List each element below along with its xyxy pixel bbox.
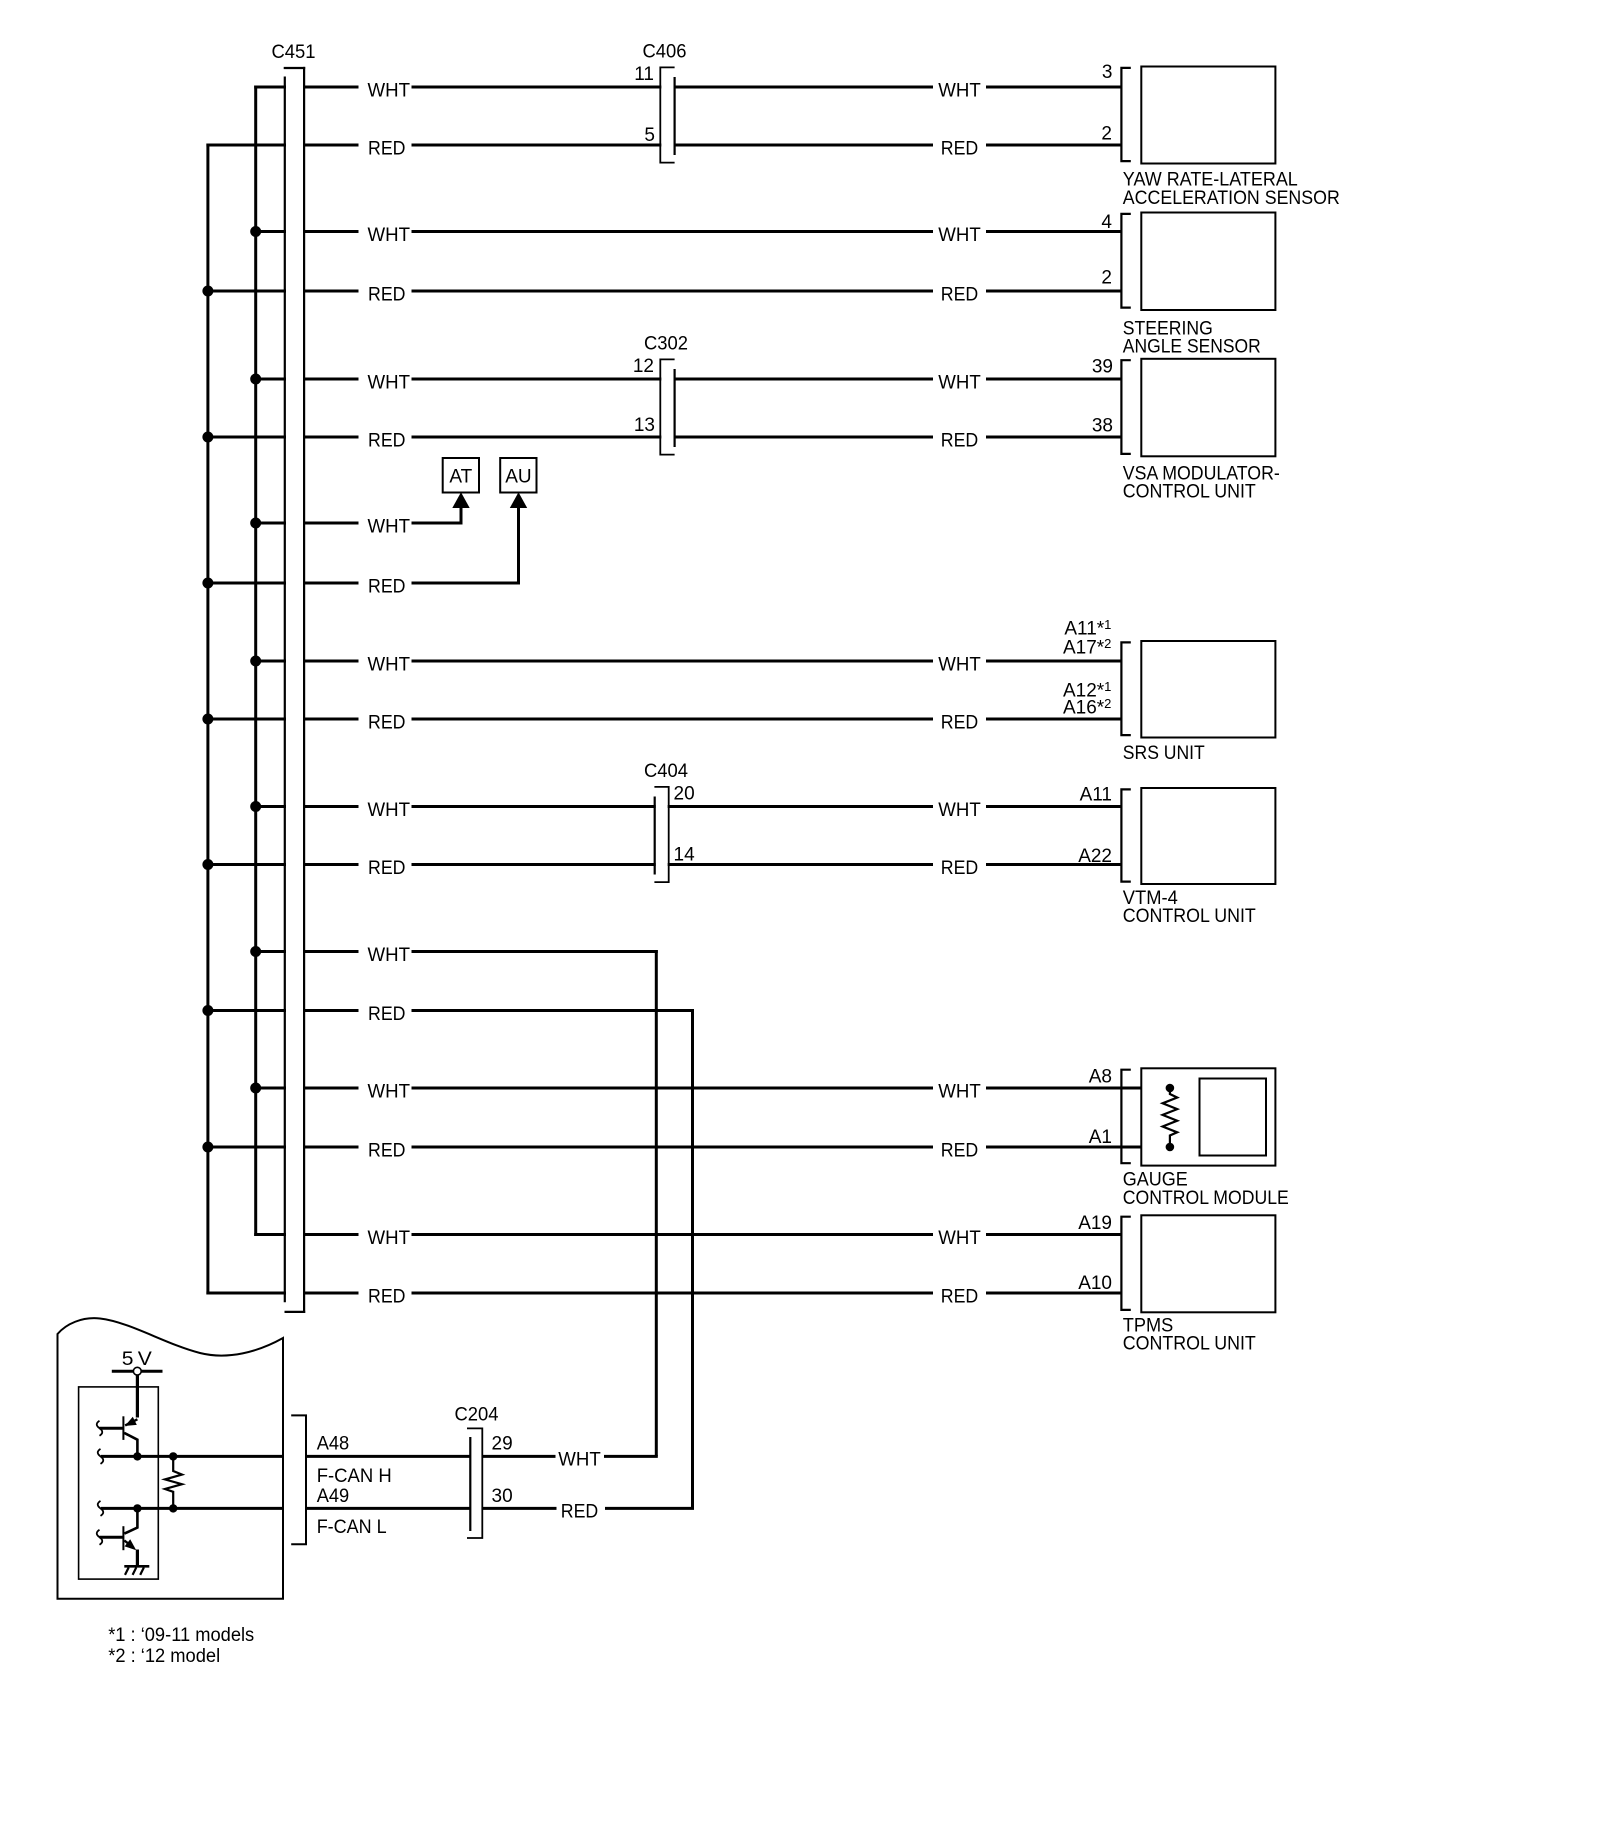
wire WHT row 3 — [254, 378, 358, 381]
svg-text:RED: RED — [941, 138, 979, 159]
wire RED row 8 segments — [412, 1146, 934, 1149]
svg-text:11: 11 — [634, 64, 654, 85]
svg-text:WHT: WHT — [938, 80, 981, 101]
svg-text:RED: RED — [368, 138, 406, 159]
svg-text:CONTROL UNIT: CONTROL UNIT — [1123, 482, 1256, 503]
ground (chassis) — [124, 1566, 149, 1575]
svg-text:ANGLE SENSOR: ANGLE SENSOR — [1123, 336, 1261, 357]
wire RED row 2 — [206, 290, 358, 293]
connector C404 — [644, 761, 695, 886]
wire WHT row 4 — [254, 522, 358, 525]
unit STEERING ANGLE SENSOR — [1101, 212, 1275, 357]
svg-text:2: 2 — [1101, 268, 1112, 289]
junction RED bus row 6 — [202, 859, 213, 870]
svg-text:WHT: WHT — [558, 1450, 601, 1471]
resistor terminating (gauge) — [1163, 1088, 1178, 1147]
svg-text:RED: RED — [941, 858, 979, 879]
svg-text:A8: A8 — [1089, 1067, 1112, 1088]
node AT connector arrow — [443, 458, 479, 525]
svg-text:29: 29 — [492, 1433, 513, 1454]
svg-text:WHT: WHT — [368, 654, 411, 675]
svg-text:RED: RED — [941, 1286, 979, 1307]
unit YAW RATE-LATERAL ACCELERATION SENSOR — [1101, 62, 1339, 209]
svg-text:A49: A49 — [317, 1486, 350, 1507]
node AU connector arrow — [500, 458, 536, 585]
node 5V terminal circle — [133, 1367, 141, 1375]
junction F-CAN H / resistor — [169, 1452, 177, 1460]
wire WHT row 2 segments — [412, 230, 934, 233]
svg-text:F-CAN L: F-CAN L — [317, 1517, 387, 1538]
gauge inner unit box — [1200, 1079, 1267, 1156]
wire WHT row 1 segments — [412, 86, 934, 89]
transistor Q2 (NPN, to ground) — [97, 1508, 138, 1565]
unit VTM-4 CONTROL UNIT — [1078, 785, 1275, 928]
wire WHT row 8 — [254, 1087, 358, 1090]
wire WHT drop vertical to F-CAN H — [655, 950, 658, 1456]
svg-text:WHT: WHT — [938, 654, 981, 675]
svg-text:WHT: WHT — [938, 225, 981, 246]
wire WHT row 7 — [254, 950, 358, 953]
svg-text:C451: C451 — [272, 42, 316, 63]
wire RED row 1 — [206, 144, 358, 147]
svg-text:C302: C302 — [644, 334, 688, 355]
wire 5V to Q1 collector — [136, 1375, 139, 1417]
svg-text:A22: A22 — [1078, 846, 1112, 867]
wire RED row 9 — [206, 1292, 358, 1295]
wire RED row 6 segments — [412, 863, 934, 866]
svg-text:WHT: WHT — [938, 800, 981, 821]
svg-text:CONTROL UNIT: CONTROL UNIT — [1123, 906, 1256, 927]
wire continuation curl Q2 base — [97, 1530, 103, 1545]
wire RED row 3 — [206, 436, 358, 439]
svg-text:*1 : ‘09-11 models: *1 : ‘09-11 models — [108, 1625, 254, 1646]
wire WHT row 3 segments — [412, 378, 934, 381]
power 5V rail — [112, 1370, 163, 1373]
svg-text:C204: C204 — [455, 1405, 499, 1426]
wire continuation curl F-CAN H — [98, 1449, 104, 1464]
wire RED row 2 segments — [412, 290, 934, 293]
junction WHT bus row 4 — [250, 518, 261, 529]
svg-text:39: 39 — [1092, 357, 1113, 378]
svg-text:WHT: WHT — [368, 945, 411, 966]
svg-text:WHT: WHT — [938, 1228, 981, 1249]
resistor terminating (F-CAN) — [165, 1456, 182, 1508]
svg-text:A10: A10 — [1078, 1273, 1112, 1294]
wire WHT row 5 — [254, 660, 358, 663]
unit GAUGE CONTROL MODULE — [1089, 1067, 1289, 1210]
svg-text:AT: AT — [449, 467, 472, 488]
wire F-CAN L inside box — [101, 1507, 283, 1510]
unit SRS UNIT — [1063, 617, 1275, 764]
wire RED row 9 segments — [412, 1292, 934, 1295]
wire WHT row 6 — [254, 805, 358, 808]
wire WHT row 7 to drop — [412, 950, 658, 953]
transistor Q1 (PNP, to 5V) — [97, 1416, 138, 1456]
wire RED row 4 to AU — [412, 582, 521, 585]
svg-text:WHT: WHT — [368, 80, 411, 101]
junction RED bus row 2 — [202, 286, 213, 297]
svg-text:4: 4 — [1101, 212, 1112, 233]
svg-text:ACCELERATION SENSOR: ACCELERATION SENSOR — [1123, 188, 1340, 209]
wire F-CAN H (A48/WHT) to C204 — [306, 1455, 470, 1458]
wire continuation curl F-CAN L — [98, 1501, 104, 1516]
junction RED bus row 3 — [202, 432, 213, 443]
svg-text:RED: RED — [941, 1140, 979, 1161]
wire WHT row 2 — [254, 230, 358, 233]
wire RED row 8 — [206, 1146, 358, 1149]
junction RED bus row 5 — [202, 714, 213, 725]
svg-text:RED: RED — [368, 1004, 406, 1025]
svg-text:RED: RED — [368, 1286, 406, 1307]
svg-text:WHT: WHT — [368, 225, 411, 246]
svg-text:RED: RED — [941, 430, 979, 451]
wire RED row 7 — [206, 1009, 358, 1012]
svg-text:C404: C404 — [644, 761, 688, 782]
svg-text:WHT: WHT — [368, 800, 411, 821]
junction F-CAN L / resistor — [169, 1504, 177, 1512]
svg-text:A1: A1 — [1089, 1127, 1112, 1148]
svg-text:38: 38 — [1092, 416, 1113, 437]
svg-text:13: 13 — [634, 415, 655, 436]
svg-text:C406: C406 — [643, 42, 687, 63]
junction RED bus row 7 — [202, 1005, 213, 1016]
wire RED row 4 — [206, 582, 358, 585]
svg-text:3: 3 — [1102, 62, 1113, 83]
unit TPMS CONTROL UNIT — [1078, 1213, 1275, 1355]
svg-text:A19: A19 — [1078, 1213, 1112, 1234]
svg-text:RED: RED — [368, 1140, 406, 1161]
wire RED bus vertical — [206, 144, 209, 1295]
svg-text:RED: RED — [941, 712, 979, 733]
wire F-CAN H inside box — [101, 1455, 283, 1458]
svg-text:RED: RED — [368, 576, 406, 597]
svg-text:WHT: WHT — [938, 372, 981, 393]
svg-text:CONTROL UNIT: CONTROL UNIT — [1123, 1334, 1256, 1355]
wire continuation curl Q1 base — [97, 1421, 103, 1436]
junction WHT bus row 8 — [250, 1083, 261, 1094]
svg-text:A17*2: A17*2 — [1063, 636, 1111, 659]
svg-text:14: 14 — [674, 845, 696, 866]
junction RED bus row 8 — [202, 1142, 213, 1153]
wire RED row 6 — [206, 863, 358, 866]
svg-text:CONTROL MODULE: CONTROL MODULE — [1123, 1188, 1289, 1209]
svg-text:RED: RED — [368, 430, 406, 451]
svg-text:A11: A11 — [1080, 785, 1112, 806]
svg-text:RED: RED — [368, 284, 406, 305]
svg-text:WHT: WHT — [368, 1228, 411, 1249]
connector C406 — [634, 42, 686, 167]
svg-text:A16*2: A16*2 — [1063, 696, 1111, 719]
junction gauge RED — [1166, 1143, 1175, 1152]
svg-text:SRS UNIT: SRS UNIT — [1123, 743, 1205, 764]
svg-text:WHT: WHT — [938, 1081, 981, 1102]
svg-text:A48: A48 — [317, 1433, 350, 1454]
wire WHT row 6 segments — [412, 805, 934, 808]
svg-text:20: 20 — [674, 784, 695, 805]
svg-text:AU: AU — [505, 467, 531, 488]
wire RED row 5 — [206, 718, 358, 721]
wire WHT bus vertical — [254, 86, 257, 1237]
svg-text:WHT: WHT — [368, 516, 411, 537]
wire WHT row 9 segments — [412, 1233, 934, 1236]
wire RED row 1 segments — [412, 144, 934, 147]
svg-text:RED: RED — [368, 858, 406, 879]
svg-text:12: 12 — [633, 356, 654, 377]
junction gauge WHT — [1166, 1084, 1175, 1093]
junction F-CAN L / Q2 collector — [133, 1504, 141, 1512]
junction RED bus row 4 — [202, 578, 213, 589]
unit VSA MODULATOR-CONTROL UNIT — [1092, 357, 1280, 503]
wire WHT row 5 segments — [412, 660, 934, 663]
connector C302 — [633, 334, 688, 459]
svg-text:RED: RED — [941, 284, 979, 305]
connector C451 — [272, 42, 316, 1313]
wire WHT row 8 segments — [412, 1087, 934, 1090]
junction WHT bus row 7 — [250, 946, 261, 957]
svg-text:RED: RED — [561, 1502, 599, 1523]
wire RED row 7 to drop — [412, 1009, 695, 1012]
wire WHT row 1 — [254, 86, 358, 89]
junction F-CAN H / Q1 emitter — [133, 1452, 141, 1460]
junction WHT bus row 2 — [250, 226, 261, 237]
svg-text:5: 5 — [644, 125, 655, 146]
wire F-CAN L (A49/RED) to C204 — [306, 1507, 470, 1510]
wire WHT row 4 to AT — [412, 522, 463, 525]
junction WHT bus row 3 — [250, 374, 261, 385]
svg-text:WHT: WHT — [368, 372, 411, 393]
junction WHT bus row 5 — [250, 656, 261, 667]
junction WHT bus row 6 — [250, 801, 261, 812]
svg-text:2: 2 — [1101, 124, 1112, 145]
wire WHT row 9 — [254, 1233, 358, 1236]
svg-text:RED: RED — [368, 712, 406, 733]
connector C204 — [455, 1405, 513, 1539]
wire RED row 3 segments — [412, 436, 934, 439]
wire RED drop vertical to F-CAN L — [691, 1009, 694, 1508]
svg-text:F-CAN H: F-CAN H — [317, 1466, 392, 1487]
wire RED row 5 segments — [412, 718, 934, 721]
svg-text:30: 30 — [492, 1486, 513, 1507]
control unit box (torn top edge) — [58, 1318, 284, 1599]
transceiver inner box — [79, 1387, 159, 1579]
svg-text:WHT: WHT — [368, 1081, 411, 1102]
control unit connector bracket — [291, 1415, 306, 1544]
svg-text:*2 : ‘12 model: *2 : ‘12 model — [108, 1646, 220, 1667]
